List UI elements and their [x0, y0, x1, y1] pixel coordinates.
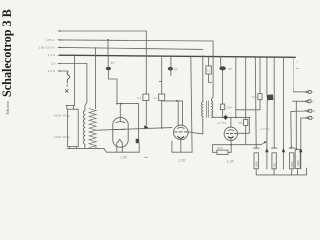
- coil T1 primary loops: [83, 111, 85, 145]
- svg-text:8000 Wdg.: 8000 Wdg.: [54, 114, 71, 118]
- wire bus drop to tap1: [266, 57, 268, 94]
- node V2 plate branch: [176, 100, 178, 102]
- resistor W3: [168, 67, 173, 71]
- tap arrow 3: [299, 148, 302, 153]
- wire V3 grid stub: [237, 117, 249, 133]
- wire bus to C4: [259, 57, 261, 94]
- coil L2 secondary: [212, 101, 213, 117]
- wire main bus: [60, 55, 295, 57]
- wire t3 to R3: [290, 111, 293, 148]
- resistor R2meg: [220, 104, 224, 110]
- wire R4 bottom hook: [297, 168, 299, 175]
- wire V2 plate lead a: [177, 101, 179, 126]
- svg-text:+: +: [296, 60, 298, 64]
- wire arrester dashes: [66, 85, 68, 87]
- svg-text:4: 4: [313, 116, 315, 120]
- wire bus to coil L1: [202, 56, 204, 101]
- node bus junction x108: [107, 55, 109, 57]
- wire antenna line 2: [60, 40, 213, 41]
- wire bus drop to tap2: [283, 57, 285, 148]
- svg-text:1,4 Ω: 1,4 Ω: [48, 53, 56, 57]
- wire V1 filament leads: [117, 143, 123, 153]
- transformer T1 bus drop: [66, 55, 75, 105]
- wire C2 down to coupling: [161, 101, 163, 128]
- capacitor C1: [143, 94, 149, 101]
- wire bus drop to R1: [254, 57, 257, 148]
- arrowhead R3 feed: [290, 146, 292, 148]
- svg-text:0,1: 0,1: [154, 96, 159, 100]
- wire T1 secondary top lead: [95, 48, 97, 109]
- tap arrow 1: [265, 148, 268, 153]
- node bus junction x235: [235, 56, 237, 58]
- label dash mark: [145, 156, 148, 158]
- tube V1 envelope: [113, 118, 128, 148]
- arrowhead R4 feed: [295, 147, 297, 149]
- wire grid line V3: [212, 116, 250, 118]
- wire C1 to coupling line: [145, 101, 147, 128]
- svg-text:1000: 1000: [296, 160, 300, 166]
- terminal t4: [309, 116, 312, 119]
- svg-text:1,85–18,5 m: 1,85–18,5 m: [38, 46, 55, 50]
- wire line2 to bus drop: [107, 40, 109, 56]
- wire line2 drop to coil L2: [212, 41, 214, 101]
- wire terminal t1 line: [293, 91, 305, 93]
- capacitor C4: [258, 94, 262, 100]
- wire bus drop to C5: [245, 57, 247, 120]
- wire bus drop to V2 shelf: [191, 56, 192, 152]
- wire W3 stub: [170, 70, 172, 75]
- svg-text:°r: °r: [147, 122, 149, 126]
- wire T1 primary stubs: [67, 106, 74, 110]
- lightning arrester F1: [67, 72, 70, 83]
- svg-text:500: 500: [238, 121, 243, 125]
- svg-text:4000: 4000: [290, 161, 294, 167]
- transformer T1 winding box: [68, 109, 79, 146]
- svg-text:2000 Wdg.: 2000 Wdg.: [53, 135, 71, 139]
- terminal t3: [309, 109, 312, 112]
- wire T1 primary bottom: [84, 145, 86, 149]
- wire tap arrow 3 stem: [300, 152, 302, 169]
- wire T1 line5 drop: [85, 64, 87, 111]
- wire t4 to tap arrow 3: [300, 118, 302, 148]
- terminal arrow A5: [57, 63, 61, 65]
- svg-text:o: o: [312, 91, 314, 94]
- wire bus drop to R2: [273, 57, 275, 148]
- node plate feed junction: [116, 103, 118, 105]
- arrowhead t3: [306, 110, 308, 112]
- arrow to battery tap: [261, 142, 265, 144]
- tube V1 plate: [116, 122, 125, 123]
- wire terminal t4 line: [301, 117, 306, 119]
- wire battery bottom line: [256, 168, 306, 175]
- wire bus to resistor W1: [107, 56, 109, 67]
- svg-text:45º: 45º: [174, 67, 179, 71]
- svg-text:1,3K: 1,3K: [227, 159, 235, 163]
- label minus mark: [296, 68, 298, 70]
- wire bus drop x235: [235, 57, 237, 118]
- wire R2meg to grid line: [222, 110, 224, 118]
- wire tap arrow 1 stem: [266, 152, 268, 169]
- node bus junction x202: [202, 56, 204, 58]
- node bus junction x220: [220, 56, 222, 58]
- node bus junction x283: [283, 56, 285, 58]
- capacitor C2: [159, 94, 165, 101]
- wire tick on C2 drop: [159, 81, 161, 83]
- transformer T1 core: [89, 109, 96, 148]
- capacitor C3 feed: [208, 57, 210, 66]
- svg-text:1,85 m: 1,85 m: [46, 38, 56, 42]
- node bus junction x260: [259, 56, 261, 58]
- tube V2 envelope: [174, 125, 189, 140]
- wire C5 down: [245, 126, 247, 145]
- svg-text:0,1: 0,1: [137, 96, 142, 100]
- terminal arrow A6: [57, 70, 61, 72]
- wire antenna line 5: [60, 63, 87, 65]
- svg-text:1,5K: 1,5K: [120, 155, 128, 159]
- tube V3 filament: [228, 137, 233, 138]
- wire hf line x109: [236, 109, 260, 111]
- wire V2 cathode lead: [180, 140, 182, 152]
- wire battery R2 top cap: [271, 147, 277, 149]
- svg-text:0,1μ: 0,1μ: [252, 95, 258, 99]
- wire T1 box bottom stubs: [69, 147, 76, 149]
- wire C4 to hf line: [259, 100, 261, 110]
- svg-text:45º: 45º: [111, 61, 116, 65]
- wire L1 drop to C1: [145, 31, 147, 94]
- resistor battery R4: [295, 150, 300, 169]
- wire rheostat riser: [138, 143, 140, 152]
- wire V2 plate lead b: [181, 101, 183, 126]
- resistor R5000: [217, 150, 228, 154]
- wire grid coupling line: [97, 128, 172, 131]
- wire junction to rheostat drop: [120, 104, 138, 139]
- resistor battery R1: [254, 153, 258, 169]
- wire T1 secondary bottom lead: [95, 147, 97, 149]
- tube V3 plate: [228, 129, 234, 132]
- terminal arrow A1: [57, 30, 61, 32]
- resistor battery R2: [272, 153, 276, 169]
- capacitor C5: [244, 119, 248, 125]
- wire terminal t3 line: [291, 110, 306, 112]
- node rheostat feed: [121, 103, 123, 105]
- tube V1 grid dashes: [115, 128, 125, 130]
- terminal arrow A2: [57, 39, 61, 41]
- terminal t1: [308, 90, 311, 93]
- tube V1 filament: [118, 139, 123, 142]
- node bus junction x245: [245, 56, 247, 58]
- wire V3 plate lead: [230, 117, 232, 127]
- wire V2 grid to coil: [188, 132, 203, 134]
- wire V2 shelf: [172, 141, 192, 152]
- svg-text:0,1: 0,1: [206, 69, 210, 72]
- svg-text:B: B: [313, 109, 315, 113]
- wire bus to resistor W3: [170, 56, 172, 67]
- terminal arrow A3: [57, 47, 61, 49]
- wire W1 down and right: [108, 70, 117, 103]
- tube V2 grid dashes: [174, 131, 187, 133]
- wire battery R1 top cap: [254, 147, 260, 149]
- svg-text:3: 3: [312, 100, 314, 104]
- terminal t2: [308, 100, 311, 103]
- wire V3 cathode lead: [230, 139, 232, 145]
- arrowhead t2: [305, 100, 307, 102]
- jack contact J1: [144, 125, 148, 129]
- arrowhead t4: [306, 117, 308, 119]
- wire bus to resistor W2: [220, 57, 222, 67]
- tube V2 plate: [177, 127, 184, 128]
- wire R5000 leads: [213, 145, 232, 153]
- tap arrow 2: [282, 148, 285, 153]
- svg-text:Schalecotrop 3 B: Schalecotrop 3 B: [0, 9, 14, 97]
- wire R3 bottom hook: [291, 169, 293, 175]
- wire filament line V3: [213, 144, 262, 146]
- svg-text:1,8: 1,8: [51, 61, 56, 65]
- wire R2 bottom hook: [273, 169, 275, 175]
- svg-text:Schaleco: Schaleco: [6, 101, 10, 115]
- ground earth mark: [65, 90, 68, 93]
- wire L1 bottom to V2 grid: [202, 116, 204, 133]
- svg-text:5000: 5000: [217, 146, 224, 150]
- wire antenna line 1: [60, 30, 146, 32]
- wire to V1 plate: [117, 104, 120, 122]
- svg-text:μF 55C: μF 55C: [260, 127, 271, 131]
- node bus junction x266: [266, 56, 268, 58]
- capacitor grid diamond: [223, 115, 228, 120]
- node filament junction: [230, 144, 232, 146]
- resistor battery R3: [290, 153, 294, 169]
- tube V3 envelope: [224, 127, 237, 140]
- wire C3 to coil: [209, 74, 212, 82]
- wire left end down: [212, 145, 214, 153]
- node coupling junction: [161, 127, 163, 129]
- wire bus end to t1: [292, 57, 294, 91]
- wire t2 to R4: [295, 101, 297, 149]
- svg-text:0,5M: 0,5M: [226, 106, 232, 110]
- wire terminal t2 line: [293, 100, 306, 102]
- wire tap1 lower: [266, 100, 268, 148]
- arrowhead t1: [306, 91, 308, 93]
- node bus junction x274: [273, 56, 275, 58]
- svg-text:1,2K: 1,2K: [178, 159, 186, 163]
- svg-text:45º: 45º: [228, 67, 233, 71]
- rheostat blob V1: [136, 139, 140, 143]
- wire filament shelf left: [67, 149, 139, 153]
- capacitor C3: [206, 66, 211, 74]
- wire W2 down: [222, 70, 224, 104]
- wire antenna line 3: [60, 47, 203, 49]
- transformer T2 core: [207, 101, 209, 118]
- svg-text:1000: 1000: [255, 161, 259, 167]
- blob component on tap1: [267, 95, 274, 101]
- node grid line junction: [235, 117, 237, 119]
- resistor W1: [106, 67, 111, 71]
- terminal arrow A4: [57, 54, 61, 56]
- wire tap arrow 2 stem: [283, 152, 285, 169]
- resistor W2: [219, 66, 225, 70]
- node bus junction x254: [254, 56, 256, 58]
- tube V2 filament: [178, 137, 184, 139]
- tube V3 grid dashes: [226, 132, 236, 134]
- svg-text:4,5 Ω: 4,5 Ω: [48, 69, 56, 73]
- wire bus to C2: [161, 56, 163, 94]
- wire antenna line 6: [60, 70, 68, 72]
- svg-text:μF 555: μF 555: [217, 121, 227, 125]
- svg-text:100: 100: [272, 163, 276, 168]
- wire branch to V2 top: [162, 100, 183, 102]
- wire battery R3 top cap: [289, 147, 295, 149]
- arrowhead battery tap: [264, 141, 267, 143]
- node L2-bus junction: [107, 39, 109, 41]
- coil L1 primary: [201, 102, 202, 117]
